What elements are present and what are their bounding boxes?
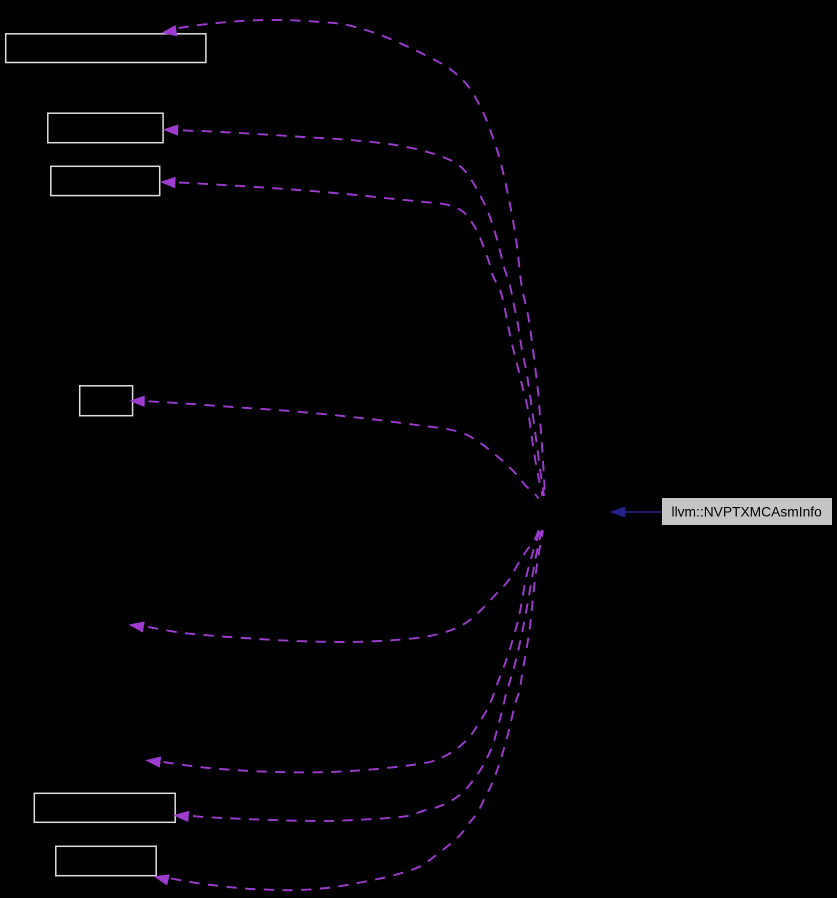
node box B1 [6, 34, 206, 63]
node box B3 [51, 166, 160, 195]
dashed edge E1 [179, 20, 546, 497]
dashed edge E4 [149, 401, 539, 498]
arrowhead A6 [145, 756, 161, 767]
arrowhead A8 [154, 874, 170, 885]
arrowhead A1 [161, 25, 177, 36]
arrowhead A5 [129, 621, 145, 632]
dashed edge E5 [148, 530, 539, 643]
arrowhead A7 [173, 811, 189, 822]
dashed edge E6 [164, 530, 541, 773]
arrowhead A4 [129, 396, 145, 407]
dashed edge E3 [179, 183, 543, 497]
dashed edge E7 [193, 530, 542, 821]
arrowhead A2 [163, 124, 179, 135]
svg-text:llvm::NVPTXMCAsmInfo: llvm::NVPTXMCAsmInfo [672, 505, 823, 520]
node box B5 [34, 793, 175, 822]
dashed edge E8 [171, 531, 543, 891]
node box B4 [80, 386, 133, 416]
dashed edge E2 [183, 130, 544, 496]
node box B2 [48, 113, 163, 143]
node llvm::NVPTXMCAsmInfo [662, 498, 832, 525]
arrowhead A3 [160, 177, 176, 188]
node box B6 [56, 846, 156, 875]
solid navy inheritance arrow [609, 507, 662, 518]
